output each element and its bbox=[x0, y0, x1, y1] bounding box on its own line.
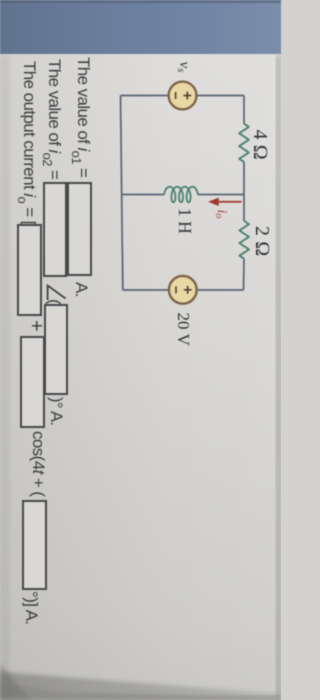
angle symbol of line 2 answer bbox=[48, 286, 66, 301]
wire: bottom rail, node B (middle branch foot) through full width bbox=[121, 96, 123, 291]
question line 2 bbox=[44, 59, 64, 179]
question line 3 bbox=[19, 61, 39, 225]
wire: top rail, resistor 4ohm to node A (middle branch junction) bbox=[243, 162, 245, 195]
voltage source vs plus sign bbox=[183, 92, 191, 100]
label 20V bbox=[173, 313, 193, 346]
wire: middle branch, inductor bottom to bottom rail bbox=[122, 194, 165, 196]
answer box 2a bbox=[44, 182, 68, 277]
resistor 4 ohm (top rail, left) bbox=[239, 124, 249, 162]
wire: right edge, below source 20V bbox=[123, 289, 168, 291]
answer box 1 bbox=[67, 182, 93, 276]
wire: left edge, above source vs bbox=[197, 95, 244, 97]
tail line2 bbox=[47, 397, 66, 425]
label io red bbox=[214, 210, 230, 219]
voltage source 20V circle (right edge) bbox=[169, 276, 197, 304]
angle symbol paren bbox=[44, 299, 64, 304]
answer box 2b bbox=[44, 304, 68, 395]
label 1H bbox=[174, 208, 195, 234]
inductor 1 H coil (middle branch) bbox=[164, 187, 198, 203]
wire: top rail, resistor 2ohm to top-right corner bbox=[243, 259, 246, 290]
wire: right edge, above source 20V bbox=[198, 289, 244, 291]
label vs bbox=[175, 62, 192, 73]
voltage source 20V plus sign bbox=[184, 286, 192, 294]
label 4ohm bbox=[248, 130, 271, 160]
wire: middle branch, node A down to inductor top bbox=[198, 194, 245, 196]
resistor 2 ohm (top rail, right) bbox=[239, 221, 249, 259]
answer box 3c bbox=[22, 500, 47, 590]
voltage source vs minus sign bbox=[175, 92, 177, 99]
wire: top rail, top-left corner to resistor 4ohm bbox=[243, 96, 245, 124]
current arrow io shaft (points down from top rail) bbox=[217, 201, 242, 203]
plus line3 bbox=[25, 320, 48, 331]
unit A line1 bbox=[71, 282, 91, 297]
cos text bbox=[28, 431, 48, 496]
current arrow io head bbox=[208, 198, 219, 206]
wire: left edge, below source vs bbox=[121, 95, 168, 97]
wire: top rail, node A to resistor 2ohm bbox=[243, 195, 245, 222]
answer box 3a bbox=[17, 224, 42, 316]
voltage source vs circle (left edge) bbox=[169, 82, 197, 110]
question line 1 bbox=[73, 57, 93, 177]
voltage source 20V minus sign bbox=[175, 286, 177, 293]
label 2ohm bbox=[250, 226, 273, 256]
tail line3 bbox=[21, 591, 41, 624]
answer box 3b bbox=[20, 336, 45, 428]
